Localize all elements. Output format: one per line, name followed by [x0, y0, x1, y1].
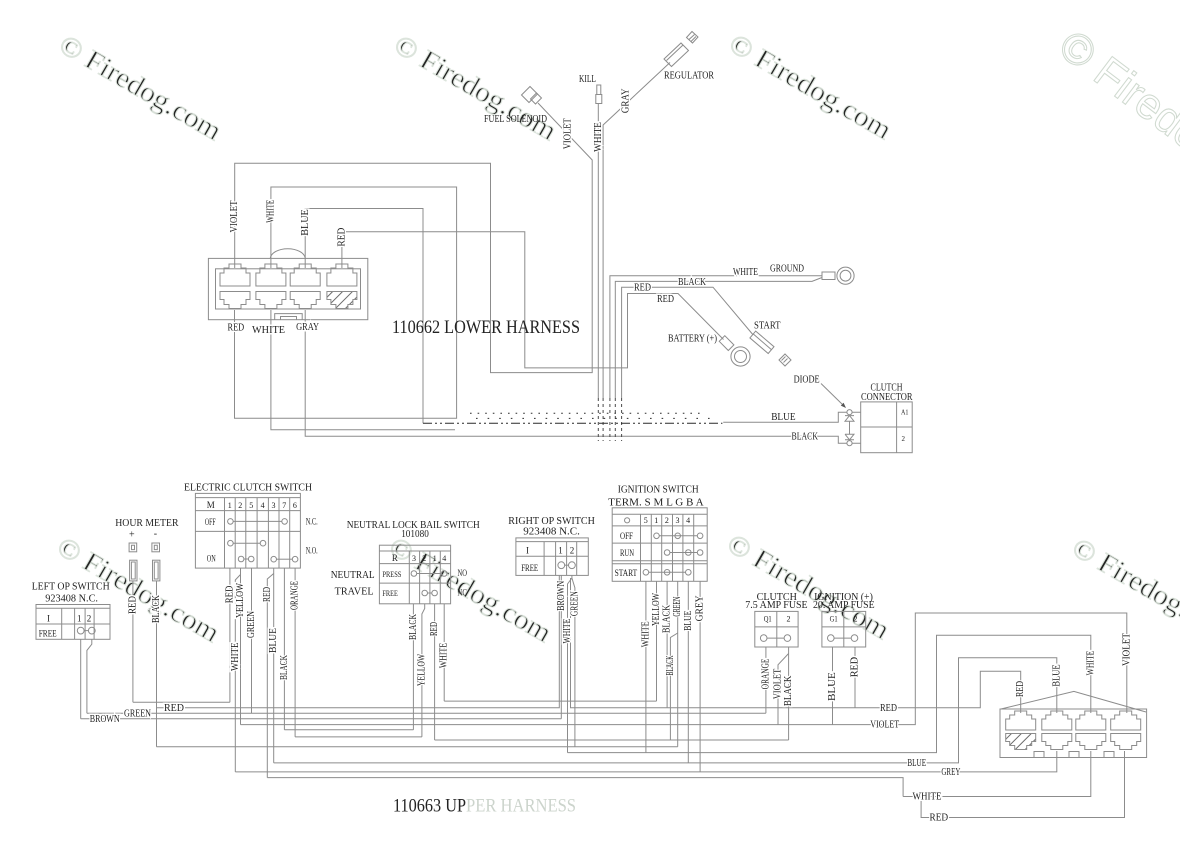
svg-text:REGULATOR: REGULATOR — [664, 71, 714, 82]
svg-text:TERM. S M L G B A: TERM. S M L G B A — [608, 497, 703, 509]
wire: clutch sw col5 green — [251, 568, 253, 713]
svg-text:VIOLET: VIOLET — [562, 118, 573, 149]
bus: yellow-violet (to J2 pin4 top) — [241, 613, 1127, 725]
J2 pin 3 bottom (white) — [1076, 734, 1106, 750]
svg-text:NC: NC — [458, 588, 468, 598]
svg-text:BLACK: BLACK — [408, 613, 419, 640]
svg-text:NO: NO — [458, 568, 468, 578]
wire: clutch sw col1 red — [229, 568, 231, 702]
svg-text:BLUE: BLUE — [268, 628, 279, 653]
svg-text:I: I — [47, 614, 50, 624]
J2 pin 2 bottom (grey) — [1042, 734, 1072, 750]
svg-text:RUN: RUN — [620, 548, 634, 558]
bus: orange (clutch sw to bail sw yellow) — [295, 736, 422, 738]
bus: brown — [81, 718, 562, 720]
svg-text:110662 LOWER HARNESS: 110662 LOWER HARNESS — [392, 317, 580, 338]
svg-text:BATTERY (+): BATTERY (+) — [668, 334, 717, 345]
bus: hour meter red jog — [133, 701, 230, 703]
svg-text:PER HARNESS: PER HARNESS — [466, 796, 576, 817]
wire: right op green branch — [572, 578, 575, 747]
wire: clutch sw red branch — [267, 574, 273, 778]
svg-text:HOUR METER: HOUR METER — [115, 517, 179, 529]
svg-text:GRAY: GRAY — [296, 322, 319, 333]
svg-text:RED: RED — [164, 703, 184, 714]
svg-text:BLACK: BLACK — [279, 654, 290, 680]
svg-text:6: 6 — [293, 501, 297, 510]
connector J2 (110663 upper harness, 8-pin) — [1000, 691, 1147, 757]
svg-text:2: 2 — [87, 614, 92, 624]
wire blue stub to clutch connector A1 — [723, 412, 861, 422]
wire: clutch sw col3 blue — [273, 568, 275, 763]
J2 pin 3 top (white) — [1076, 711, 1106, 730]
svg-text:WHITE: WHITE — [733, 267, 758, 278]
svg-text:PRESS: PRESS — [382, 570, 401, 579]
wire: clutch fuse violet branch — [778, 654, 789, 725]
svg-text:+: + — [129, 530, 135, 541]
neutral lock bail switch box — [379, 545, 450, 604]
svg-text:BLACK: BLACK — [662, 604, 673, 633]
svg-text:RED: RED — [657, 294, 674, 305]
J2 pin 1 bottom (hatched) — [1006, 734, 1036, 750]
wire: right op brown — [560, 575, 562, 718]
svg-text:2: 2 — [422, 554, 426, 563]
bus: blue (to J2 pin2 top) — [274, 658, 1057, 763]
pin 2 bottom (white) — [256, 292, 286, 309]
svg-text:VIOLET: VIOLET — [229, 201, 240, 233]
svg-text:RED: RED — [262, 587, 273, 602]
svg-text:ORANGE: ORANGE — [760, 659, 771, 690]
wire white loop pin2-top to pin1-bottom (red) — [235, 187, 457, 418]
svg-text:GREEN: GREEN — [124, 708, 151, 719]
svg-text:CONNECTOR: CONNECTOR — [861, 392, 913, 403]
wire: left op pin1 brown — [80, 639, 82, 719]
svg-text:BLUE: BLUE — [771, 412, 795, 423]
svg-text:RED: RED — [930, 813, 949, 824]
wire: clutch fuse black — [788, 647, 790, 740]
svg-text:BLUE: BLUE — [683, 611, 694, 631]
left op switch box — [36, 605, 110, 640]
bus: black (clutch sw to bail sw) — [284, 729, 413, 731]
svg-text:GREY: GREY — [941, 767, 960, 778]
wire: clutch sw col7 black — [283, 568, 285, 730]
svg-text:ELECTRIC CLUTCH SWITCH: ELECTRIC CLUTCH SWITCH — [184, 482, 312, 494]
svg-text:5: 5 — [644, 516, 648, 525]
svg-text:RED: RED — [634, 283, 651, 294]
svg-text:RED: RED — [1015, 681, 1026, 697]
clutch connector box — [861, 402, 913, 453]
svg-text:WHITE: WHITE — [562, 619, 573, 644]
wire: bail sw yellow — [422, 604, 425, 737]
bus: green — [87, 712, 766, 714]
kill connector — [596, 85, 602, 104]
svg-text:DIODE: DIODE — [794, 375, 820, 386]
wire: ignition green — [677, 581, 679, 747]
svg-text:WHITE: WHITE — [252, 325, 285, 336]
bus: white (to J2 pin3 top) — [568, 635, 1091, 752]
wire gray pin3-bottom to clutch connector row 2 — [305, 310, 861, 443]
wire: hour meter black — [156, 581, 158, 747]
svg-text:110663 UP: 110663 UP — [393, 796, 466, 817]
battery(+) ring terminal — [719, 336, 750, 366]
svg-text:OFF: OFF — [205, 517, 216, 527]
wire: ignition blue — [687, 581, 689, 763]
svg-text:1: 1 — [558, 546, 563, 556]
svg-text:7: 7 — [282, 501, 286, 510]
svg-text:BLACK: BLACK — [792, 432, 819, 443]
wire white to ground — [610, 276, 822, 398]
svg-text:RED: RED — [224, 586, 235, 604]
connector J1 (110662 lower harness, 8-pin) — [208, 249, 367, 320]
J2 pin 4 bottom (red) — [1111, 734, 1141, 750]
svg-text:1: 1 — [433, 554, 437, 563]
pin 2 top (white) — [256, 264, 286, 286]
svg-text:TRAVEL: TRAVEL — [335, 586, 374, 598]
svg-text:7.5 AMP FUSE: 7.5 AMP FUSE — [745, 600, 807, 611]
wire: ignition grey — [699, 581, 701, 772]
diode label leader arrow — [821, 384, 844, 406]
wire: clutch sw col6 orange — [294, 568, 296, 737]
svg-text:FREE: FREE — [382, 589, 398, 598]
svg-text:OFF: OFF — [620, 531, 633, 541]
svg-text:GREEN: GREEN — [672, 597, 683, 617]
wire: ignition fuse blue — [832, 647, 834, 725]
svg-text:RED: RED — [880, 703, 897, 714]
svg-text:WHITE: WHITE — [266, 200, 277, 223]
wire: left op pin2 green — [87, 639, 92, 713]
svg-text:FREE: FREE — [39, 628, 57, 638]
wire gray (regulator) — [603, 63, 670, 399]
svg-text:BLUE: BLUE — [1051, 664, 1062, 686]
svg-text:BLACK: BLACK — [665, 655, 676, 675]
bus: red lower (to J2 pin4 bottom) — [921, 751, 1124, 818]
pin 4 top (red) — [327, 264, 357, 286]
wire: clutch fuse orange — [765, 647, 767, 713]
svg-text:Q1: Q1 — [764, 615, 772, 624]
svg-text:1: 1 — [228, 501, 232, 510]
wire: bail sw black — [412, 604, 414, 730]
svg-text:2: 2 — [902, 435, 906, 443]
svg-text:WHITE: WHITE — [593, 122, 604, 152]
svg-text:4: 4 — [261, 501, 265, 510]
wire blue loop pin3-top to dash-dot stub — [305, 209, 423, 424]
svg-text:M: M — [207, 500, 215, 510]
wire: ignition black branch — [670, 633, 677, 740]
svg-text:N.C.: N.C. — [306, 517, 318, 527]
wire: ignition white — [645, 581, 647, 752]
svg-text:101080: 101080 — [401, 529, 429, 540]
harness cut: dotted rows — [423, 413, 722, 423]
svg-text:START: START — [615, 568, 638, 578]
svg-text:2: 2 — [854, 615, 858, 624]
svg-text:RED: RED — [850, 657, 861, 677]
svg-text:GREEN: GREEN — [569, 591, 580, 616]
svg-text:2: 2 — [665, 516, 669, 525]
wire: bail sw red — [434, 604, 436, 740]
start connector — [750, 331, 791, 366]
svg-text:BLUE: BLUE — [300, 209, 311, 236]
svg-text:LEFT OP SWITCH: LEFT OP SWITCH — [32, 581, 110, 593]
J2 pin 1 top (red) — [1006, 711, 1036, 730]
wire: clutch sw white branch — [235, 575, 240, 772]
svg-text:BLACK: BLACK — [678, 277, 707, 288]
electric clutch switch box — [195, 493, 300, 568]
svg-text:VIOLET: VIOLET — [773, 669, 784, 700]
svg-text:4: 4 — [686, 516, 690, 525]
svg-text:NEUTRAL: NEUTRAL — [331, 569, 375, 581]
svg-text:VIOLET: VIOLET — [1121, 633, 1132, 666]
svg-text:BLUE: BLUE — [827, 672, 838, 701]
svg-text:1: 1 — [654, 516, 658, 525]
svg-text:YELLOW: YELLOW — [416, 653, 427, 686]
svg-text:BLACK: BLACK — [151, 594, 162, 623]
bus: white lower (to J2 pin3 bottom) — [903, 751, 1091, 797]
svg-text:IGNITION SWITCH: IGNITION SWITCH — [618, 484, 699, 496]
wire: right op white branch — [568, 575, 572, 752]
pin 1 top (violet) — [220, 264, 250, 286]
svg-text:WHITE: WHITE — [913, 792, 942, 803]
svg-text:RED: RED — [429, 622, 440, 636]
bus: hm black to ignition green — [157, 746, 678, 748]
wire red loop pin4-top to battery(+) — [342, 232, 724, 368]
svg-text:GREY: GREY — [695, 595, 706, 621]
wire: bail sw white — [443, 604, 445, 701]
svg-text:4: 4 — [442, 554, 446, 563]
watermarks — [52, 21, 1180, 650]
svg-text:BLUE: BLUE — [907, 758, 926, 769]
wire white (kill) — [597, 104, 599, 399]
svg-text:WHITE: WHITE — [640, 621, 651, 647]
pin 4 bottom (hatched, no wire) — [327, 292, 357, 309]
svg-text:YELLOW: YELLOW — [235, 583, 246, 618]
svg-text:WHITE: WHITE — [1085, 651, 1096, 676]
svg-text:3: 3 — [676, 516, 680, 525]
wire: ignition yellow — [656, 581, 658, 701]
wire: hour meter red — [132, 581, 134, 702]
bus: bail white to ignition yellow — [444, 700, 656, 702]
wire red to start — [622, 287, 753, 398]
pin 1 bottom (red) — [220, 292, 250, 309]
svg-text:KILL: KILL — [579, 74, 596, 85]
harness cut: dash-dot line — [423, 422, 722, 424]
J2 pin 4 top (violet) — [1111, 711, 1141, 730]
svg-text:20. AMP FUSE: 20. AMP FUSE — [813, 600, 875, 611]
svg-text:N.O.: N.O. — [306, 546, 318, 556]
hour meter connectors — [129, 543, 160, 581]
svg-text:3: 3 — [412, 554, 416, 563]
svg-text:2: 2 — [787, 615, 791, 624]
svg-text:GRAY: GRAY — [621, 89, 632, 114]
svg-text:GREEN: GREEN — [246, 611, 257, 638]
svg-text:-: - — [154, 529, 157, 540]
svg-text:BROWN: BROWN — [90, 714, 120, 725]
svg-text:ORANGE: ORANGE — [290, 581, 301, 610]
pin 3 top (blue) — [290, 264, 320, 286]
bus: red left segment — [157, 575, 560, 707]
svg-text:RED: RED — [127, 596, 138, 614]
svg-text:G1: G1 — [830, 615, 838, 624]
svg-text:FREE: FREE — [521, 563, 538, 573]
ground ring terminal — [822, 267, 854, 284]
wire black to ground — [615, 278, 822, 399]
svg-text:START: START — [754, 321, 781, 332]
ignition 20 amp fuse box — [822, 611, 866, 647]
diode pair at clutch connector — [845, 410, 854, 446]
svg-text:1: 1 — [77, 614, 82, 624]
svg-text:BROWN: BROWN — [556, 581, 567, 611]
svg-text:ON: ON — [207, 553, 216, 563]
svg-text:A1: A1 — [901, 409, 909, 417]
right op switch box — [516, 538, 588, 576]
wire: ignition black — [666, 581, 668, 708]
svg-text:VIOLET: VIOLET — [870, 720, 899, 731]
svg-text:923408 N.C.: 923408 N.C. — [45, 593, 98, 605]
wire white pin2-bottom frayed end — [271, 310, 455, 430]
wire: ignition fuse red — [854, 647, 856, 708]
svg-text:RED: RED — [337, 228, 348, 247]
svg-text:R: R — [392, 553, 398, 563]
svg-text:GROUND: GROUND — [770, 264, 804, 275]
bus: red branch lower — [267, 778, 903, 797]
bus: red right segment (to J2 pin1 top) — [571, 578, 1021, 713]
svg-text:2: 2 — [238, 501, 242, 510]
svg-text:I: I — [526, 546, 529, 556]
svg-text:WHITE: WHITE — [230, 643, 241, 672]
bus: fuse black (bail red to clutch fuse) — [435, 739, 789, 741]
fuel solenoid connector — [522, 87, 542, 105]
regulator connector — [664, 32, 698, 67]
svg-text:RED: RED — [228, 323, 245, 334]
ignition switch box — [612, 508, 707, 582]
svg-text:YELLOW: YELLOW — [651, 593, 662, 626]
svg-text:3: 3 — [272, 501, 276, 510]
svg-text:BLACK: BLACK — [783, 675, 794, 706]
svg-text:923408 N.C.: 923408 N.C. — [523, 525, 580, 537]
wire: clutch sw col2 yellow — [240, 568, 242, 725]
frayed wire ends at harness cut — [598, 398, 621, 441]
bus: grey (to J2 pin2 bottom) — [235, 751, 1057, 772]
svg-text:2: 2 — [570, 546, 575, 556]
svg-text:FUEL SOLENOID: FUEL SOLENOID — [484, 114, 547, 125]
svg-text:WHITE: WHITE — [439, 643, 450, 668]
wire violet loop pin1-top to fuel solenoid — [235, 103, 593, 373]
svg-text:5: 5 — [249, 501, 253, 510]
pin 3 bottom (gray) — [290, 292, 320, 309]
clutch 7.5 amp fuse box — [755, 611, 798, 647]
J2 pin 2 top (blue) — [1042, 711, 1072, 730]
